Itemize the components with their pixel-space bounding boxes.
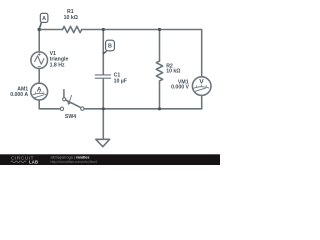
svg-text:0.000 A: 0.000 A	[10, 92, 28, 98]
footer bar	[0, 154, 220, 165]
wire left vertical upper	[38, 30, 40, 53]
wire AM1 to bottom corner	[39, 100, 60, 109]
wire top horizontal right segment	[82, 29, 202, 31]
footer logo squiggle	[11, 161, 26, 163]
junction dot bottom R2	[158, 107, 161, 110]
svg-text:LAB: LAB	[29, 160, 38, 165]
wire right vertical upper	[201, 30, 203, 77]
wire bottom right of switch	[84, 108, 202, 110]
resistor R2	[156, 61, 162, 81]
wire right vertical lower	[201, 95, 203, 108]
wire R2 branch upper	[159, 30, 161, 62]
node B label	[104, 40, 115, 53]
capacitor C1	[95, 75, 110, 78]
junction dot bottom C1	[102, 107, 105, 110]
node A terminal dot	[38, 28, 41, 31]
svg-text:10 µF: 10 µF	[114, 78, 127, 84]
svg-text:10 kΩ: 10 kΩ	[166, 69, 180, 75]
svg-text:SW4: SW4	[65, 114, 76, 120]
ground	[96, 139, 110, 146]
svg-text:A: A	[37, 87, 42, 94]
svg-text:B: B	[108, 44, 112, 50]
junction dot top C1	[102, 28, 105, 31]
svg-text:A: A	[42, 16, 46, 22]
svg-text:http://circuitlab.com/c/hc3bn4: http://circuitlab.com/c/hc3bn4	[51, 160, 98, 164]
node B pointer dot	[102, 52, 104, 54]
wire C1 branch upper	[102, 30, 104, 75]
resistor R1	[63, 26, 82, 32]
svg-text:0.000 V: 0.000 V	[171, 84, 189, 90]
wire top horizontal left segment	[39, 29, 62, 31]
svg-text:V: V	[199, 79, 204, 86]
svg-text:10 kΩ: 10 kΩ	[64, 15, 78, 21]
svg-text:afchaparroga | randles: afchaparroga | randles	[51, 155, 90, 159]
junction dot top R2	[158, 28, 161, 31]
ammeter AM1	[31, 83, 48, 100]
wire R2 branch lower	[159, 81, 161, 109]
wire C1 bottom to ground	[102, 79, 104, 140]
svg-text:1.8 Hz: 1.8 Hz	[50, 62, 65, 68]
wire between V1 and AM1	[38, 69, 40, 84]
voltmeter VM1	[192, 77, 211, 96]
switch SW4	[60, 90, 84, 111]
voltage source V1	[31, 52, 48, 69]
node A label	[39, 13, 47, 28]
